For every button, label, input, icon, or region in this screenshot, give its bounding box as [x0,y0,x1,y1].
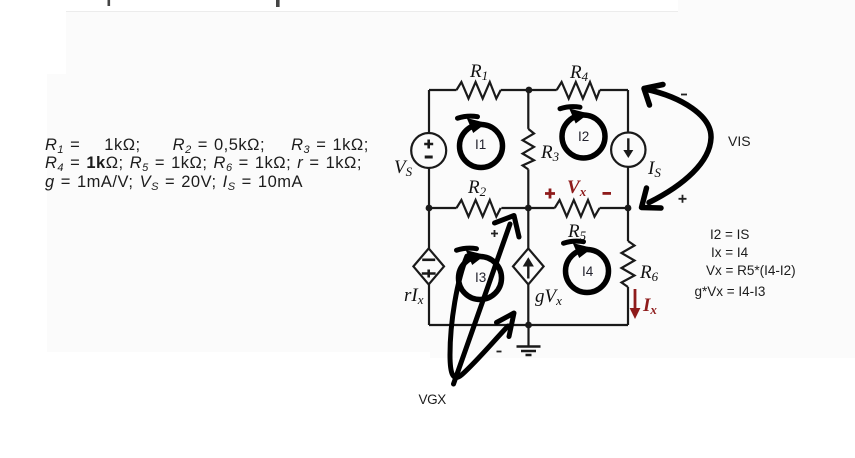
mesh current I4 loop [564,241,609,292]
voltage source VS [411,133,446,168]
wire middle rail [429,207,628,209]
wire middle vertical [527,90,529,325]
svg-text:R1: R1 [469,61,488,83]
annotation VGX straight arrow [454,216,520,385]
svg-text:gVx: gVx [535,286,562,308]
node middle middle [525,205,532,212]
node left middle [426,205,433,212]
top edge cropped text fragments [108,0,280,7]
ground [517,325,541,355]
svg-text:R4: R4 [569,62,589,84]
parameters text block line 1 [45,137,369,156]
annotation VGX curved arrow [450,256,514,378]
svg-text:R5: R5 [567,221,587,243]
label VIS [728,134,751,148]
svg-text:I3: I3 [475,270,486,285]
svg-text:IS: IS [647,158,661,180]
dependent source rIx (diamond) [413,248,444,284]
node top middle [526,87,533,94]
component labels (serif italic) [394,61,661,317]
annotation VIS curve [642,85,712,209]
svg-text:R2: R2 [467,177,487,199]
red plus of Vx [545,189,555,199]
resistor R1 [457,82,501,99]
svg-text:R3: R3 [540,142,560,164]
resistor R2 [457,200,501,217]
equations text block right [710,228,749,242]
parameters text block line 3 [45,174,303,193]
svg-text:R6: R6 [639,262,659,284]
mesh labels [475,129,594,285]
svg-text:Ix: Ix [642,295,657,317]
small minus near VIS top (annotation) [681,94,687,96]
resistor R5 [555,200,600,217]
mesh current I2 loop [560,107,605,158]
wire right rail [627,90,629,325]
small plus near VIS bottom (annotation) [679,195,687,203]
label VGX [419,393,446,407]
wire top rail [429,89,628,91]
resistor R3 [523,129,534,170]
current source IS [611,133,645,167]
current arrow Ix [630,289,641,319]
resistor R6 [622,241,635,287]
svg-text:Vx: Vx [567,177,587,199]
dependent source gVx (diamond with up arrow) [513,248,544,284]
node bottom middle [525,322,532,329]
small minus near ground (annotation) [497,351,502,353]
mesh current I1 loop [458,116,503,167]
wire bottom rail [429,324,628,326]
svg-text:I2: I2 [578,129,589,144]
small plus near R2 (annotation) [491,230,498,237]
resistor R4 [557,82,600,99]
mesh current I3 loop [457,248,502,299]
svg-text:rIx: rIx [404,285,424,307]
parameters text block line 2 [45,155,362,174]
red minus of Vx [603,192,612,195]
node right middle [625,205,632,212]
svg-text:I4: I4 [582,264,594,279]
svg-text:VS: VS [394,157,413,179]
wire left rail [428,90,430,325]
svg-text:I1: I1 [475,137,486,152]
